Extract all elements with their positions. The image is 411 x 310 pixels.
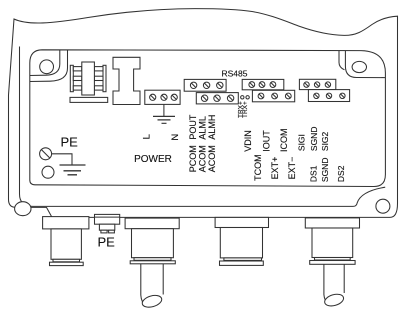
cable gland 4 body [312, 228, 353, 258]
cable gland 2 flange [125, 218, 179, 229]
wire from PE screw to ground [52, 154, 72, 165]
cable gland 2 rings [134, 258, 171, 261]
POWER screw 2 [161, 94, 167, 100]
svg-text:EXT+: EXT+ [270, 157, 280, 180]
PE earth screw terminal [40, 148, 52, 160]
transformer T1 body [82, 62, 95, 95]
cable gland 2 body [132, 229, 174, 258]
svg-text:TCOM: TCOM [253, 154, 263, 181]
svg-text:ACOM: ACOM [207, 145, 217, 172]
svg-text:N: N [170, 134, 181, 141]
enclosure outer cover outline [9, 9, 398, 218]
transformer T1 right rail [103, 65, 106, 91]
panel corner boss top-right [339, 51, 385, 78]
ground symbol under POWER block [163, 104, 165, 116]
svg-text:PCOM: PCOM [188, 145, 198, 172]
cable gland 3 rings [224, 258, 262, 261]
svg-text:ACOM: ACOM [197, 145, 207, 172]
svg-text:ALMH: ALMH [207, 115, 217, 140]
terminal block C lower [308, 90, 349, 102]
POWER terminal block [145, 90, 180, 104]
terminal block A lower [196, 93, 238, 104]
cable gland 3 body [220, 228, 262, 258]
svg-text:POWER: POWER [134, 154, 172, 165]
transformer T1 left rail [70, 65, 73, 91]
ground symbol (PE) [60, 165, 86, 175]
POWER screw 3 [171, 94, 177, 100]
cable gland 3 flange [215, 217, 268, 227]
svg-text:SGND: SGND [309, 127, 319, 152]
svg-text:ALML: ALML [197, 116, 207, 140]
svg-text:ICOM: ICOM [279, 129, 289, 153]
svg-text:SIGI: SIGI [297, 134, 307, 151]
POWER screw 1 [150, 94, 156, 100]
svg-text:POUT: POUT [188, 114, 198, 140]
corner screw hole bottom-left [15, 202, 31, 216]
terminal block C upper [299, 79, 335, 89]
TRX test points [241, 96, 244, 99]
enclosure inner wall left+bottom line [20, 47, 386, 207]
cable gland 4 rings [315, 258, 351, 261]
label strip under transformer [70, 97, 108, 102]
svg-text:RS485: RS485 [222, 68, 248, 78]
svg-text:VDIN: VDIN [243, 130, 253, 152]
transformer T1 core bars left [73, 67, 82, 91]
svg-text:SGND: SGND [320, 158, 330, 183]
svg-text:DS1: DS1 [309, 165, 319, 182]
cable gland 1 rings [53, 259, 80, 262]
panel corner screw hole top-left [40, 60, 54, 74]
cable gland 4 flange [305, 218, 359, 228]
panel corner screw hole top-right [352, 61, 366, 72]
svg-text:TRX+: TRX+ [242, 101, 249, 118]
terminal block B upper [242, 79, 284, 89]
svg-text:IOUT: IOUT [261, 130, 271, 152]
inner terminal panel outline [30, 50, 386, 187]
panel corner boss top-left arcs [30, 50, 68, 81]
svg-text:SIG2: SIG2 [320, 131, 330, 151]
corner screw hole bottom-right [376, 199, 390, 213]
transformer T1 core bars right [94, 67, 103, 91]
cable gland 1 body [51, 229, 81, 259]
fuse holder I-beam [113, 57, 140, 104]
cable W2 from gland 4 [323, 264, 345, 308]
terminal block B lower [252, 90, 294, 102]
svg-text:EXT−: EXT− [287, 157, 297, 180]
svg-text:DS2: DS2 [336, 165, 346, 182]
svg-text:L: L [142, 134, 153, 139]
PE plain hole [42, 166, 54, 178]
cable W1 from gland 2 [141, 264, 163, 309]
svg-text:PE: PE [98, 234, 116, 249]
terminal block A upper [184, 79, 226, 91]
PE bottom terminal [95, 214, 120, 233]
cable gland 1 flange [43, 217, 89, 229]
svg-text:PE: PE [61, 135, 79, 150]
